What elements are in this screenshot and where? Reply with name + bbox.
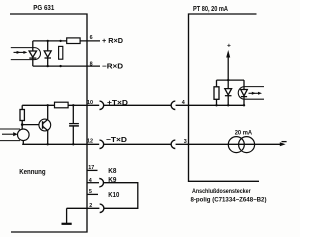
wire +TxD link bbox=[104, 104, 171, 106]
light arrows out of PT optocoupler bbox=[249, 92, 263, 95]
svg-text:−T×D: −T×D bbox=[106, 135, 127, 144]
svg-text:17: 17 bbox=[88, 165, 94, 171]
input arrow bbox=[2, 132, 18, 136]
svg-text:K10: K10 bbox=[108, 190, 119, 199]
svg-text:−R×D: −R×D bbox=[102, 61, 123, 70]
resistor R3 vertical bbox=[20, 105, 24, 124]
connector contact PT pin4 bbox=[171, 101, 175, 109]
svg-text:PT 80, 20 mA: PT 80, 20 mA bbox=[193, 4, 228, 13]
pin 5 stub bbox=[87, 193, 98, 195]
pin 17 stub bbox=[87, 169, 98, 171]
wire -TxD into PT and loop output bbox=[176, 143, 281, 145]
svg-text:+ R×D: + R×D bbox=[102, 36, 123, 45]
pin 2 wire bbox=[67, 207, 100, 209]
svg-text:PG 631: PG 631 bbox=[33, 3, 55, 12]
svg-text:20 mA: 20 mA bbox=[235, 129, 253, 136]
svg-text:K8: K8 bbox=[108, 166, 116, 175]
connector contact pin10 bbox=[100, 101, 104, 109]
loop output arrow bbox=[280, 142, 286, 146]
ground bbox=[62, 208, 72, 224]
connector contact pin2 bbox=[100, 204, 104, 212]
connector contact pin4 bbox=[99, 179, 103, 187]
svg-text:8: 8 bbox=[90, 62, 93, 68]
connector contact pin12 bbox=[100, 140, 104, 148]
wire K9 strap to pin 2 bbox=[104, 183, 138, 209]
svg-text:8-polig (C71334−Z648−B2): 8-polig (C71334−Z648−B2) bbox=[191, 197, 267, 204]
svg-text:Anschlußdosenstecker: Anschlußdosenstecker bbox=[192, 188, 251, 195]
opto LED diode bbox=[29, 41, 36, 66]
wire -TxD link bbox=[104, 143, 171, 145]
resistor R2 vertical bbox=[59, 40, 63, 68]
wire +TxD rail (PG internal + stub) bbox=[22, 104, 99, 106]
driver capsule bbox=[0, 129, 20, 141]
PG 631 enclosure outline bbox=[10, 14, 87, 232]
svg-text:3: 3 bbox=[184, 139, 187, 145]
RxD bottom rail / pin 8 wire bbox=[33, 65, 100, 67]
wire base bbox=[22, 124, 42, 126]
svg-text:6: 6 bbox=[90, 35, 93, 41]
resistor R5 vertical bbox=[214, 80, 219, 106]
wire driver bottom stub bbox=[22, 140, 24, 144]
RxD top rail / pin 6 wire bbox=[33, 40, 100, 42]
light arrows into optocoupler bbox=[14, 51, 28, 54]
svg-text:2: 2 bbox=[89, 203, 92, 209]
PT 80 enclosure outline bbox=[189, 14, 260, 181]
arrow up to supply bbox=[226, 50, 230, 80]
svg-text:12: 12 bbox=[87, 139, 93, 145]
driver circle bbox=[18, 129, 30, 141]
minus polarity mark bbox=[282, 141, 287, 143]
node base junction bbox=[21, 123, 24, 126]
capacitor C1 bbox=[69, 104, 79, 145]
svg-text:5: 5 bbox=[89, 189, 92, 195]
svg-text:+T×D: +T×D bbox=[107, 98, 128, 107]
wire +TxD into PT bbox=[176, 104, 244, 106]
svg-text:4: 4 bbox=[89, 178, 92, 184]
resistor R4 horizontal bbox=[55, 102, 69, 108]
optocoupler capsule (RxD) bbox=[11, 48, 41, 60]
current source circle A bbox=[228, 137, 244, 153]
svg-text:Kennung: Kennung bbox=[19, 167, 46, 176]
svg-text:10: 10 bbox=[87, 100, 93, 106]
clamp diode D2 bbox=[44, 40, 51, 68]
opto LED diode (PT) bbox=[241, 80, 248, 106]
transistor Q1 bbox=[39, 104, 51, 145]
diode D3 bbox=[225, 80, 232, 106]
bridge top rail bbox=[217, 79, 245, 81]
pin 4 stub bbox=[87, 182, 99, 184]
connector contact PT pin3 bbox=[171, 140, 175, 148]
wire -TxD rail (PG internal + stub) bbox=[22, 143, 99, 145]
optocoupler capsule (PT) bbox=[238, 87, 264, 100]
resistor R1 horizontal bbox=[67, 38, 80, 44]
wire driver top stub bbox=[21, 125, 23, 130]
current source circle B bbox=[239, 137, 255, 153]
svg-text:+: + bbox=[227, 43, 231, 50]
svg-text:4: 4 bbox=[182, 100, 185, 106]
